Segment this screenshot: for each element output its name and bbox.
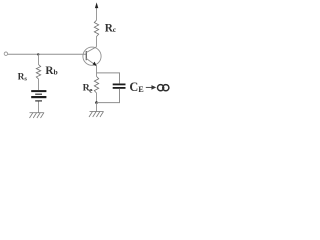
transistor Q1 bbox=[83, 47, 101, 65]
wire collector bbox=[96, 37, 98, 47]
wire cap bottom to node bbox=[97, 89, 120, 103]
wire Re to node bbox=[96, 93, 98, 103]
resistor Rc bbox=[94, 20, 98, 36]
ground right bbox=[89, 112, 104, 118]
wire node to ground bbox=[96, 103, 98, 112]
wire emitter tee to cap top bbox=[97, 73, 120, 84]
Vcc arrow bbox=[95, 2, 98, 8]
wire emitter down bbox=[96, 66, 98, 77]
wire input to base bbox=[8, 53, 87, 55]
node base junction bbox=[37, 53, 39, 55]
input terminal bbox=[4, 52, 7, 55]
wire battery to ground bbox=[38, 102, 40, 113]
battery V (cell plates) bbox=[31, 90, 46, 92]
resistor Rb bbox=[36, 65, 40, 80]
infinity symbol bbox=[158, 85, 169, 91]
svg-text:Rc: Rc bbox=[105, 23, 117, 35]
resistor Re bbox=[94, 76, 98, 93]
wire Rb to battery bbox=[38, 79, 40, 90]
wire node to Rb bbox=[38, 54, 40, 64]
wire to Vcc arrow bbox=[96, 7, 98, 20]
svg-text:Rb: Rb bbox=[45, 65, 57, 77]
node emitter bottom bbox=[95, 101, 98, 104]
emitter arrowhead bbox=[93, 62, 97, 67]
arrow to infinity bbox=[146, 86, 155, 89]
ground left bbox=[30, 113, 45, 119]
capacitor CE bbox=[113, 84, 126, 86]
